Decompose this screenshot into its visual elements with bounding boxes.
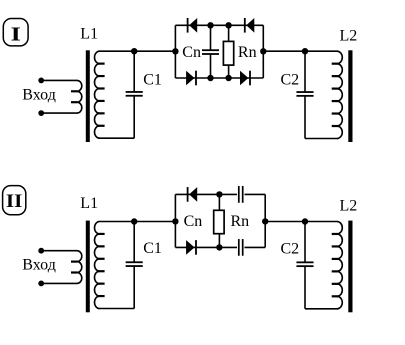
svg-text:C2: C2 <box>281 71 300 88</box>
svg-text:L2: L2 <box>340 27 358 44</box>
svg-text:Вход: Вход <box>22 256 56 273</box>
svg-text:I: I <box>11 24 21 46</box>
svg-text:C1: C1 <box>143 240 162 257</box>
svg-text:Cn: Cn <box>184 213 203 230</box>
svg-text:Cn: Cn <box>182 44 201 61</box>
svg-text:Rn: Rn <box>238 44 257 61</box>
svg-text:L1: L1 <box>80 26 98 43</box>
svg-text:Rn: Rn <box>231 213 250 230</box>
svg-text:L2: L2 <box>340 197 358 214</box>
svg-text:Вход: Вход <box>22 87 56 104</box>
svg-text:C1: C1 <box>143 72 162 89</box>
svg-text:II: II <box>6 191 23 212</box>
svg-text:L1: L1 <box>80 195 98 212</box>
svg-text:C2: C2 <box>281 240 300 257</box>
